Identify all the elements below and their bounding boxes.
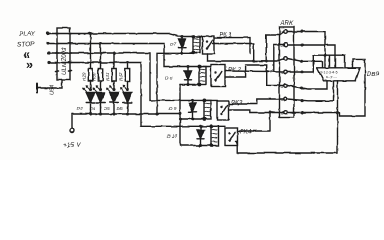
svg-text:D3: D3 [77, 106, 83, 112]
wire ULN common to ground [37, 80, 62, 88]
wire PLAY input bus [48, 34, 203, 37]
svg-text:9·1·2·3·4·5: 9·1·2·3·4·5 [321, 71, 338, 75]
LED D3 [77, 86, 95, 114]
wire PK2 to ARK pin5 [225, 65, 284, 86]
wire ARK pin5 to DB9 [287, 81, 327, 89]
wire ARK pin8 to DB9 [287, 81, 337, 113]
connector DB9 [317, 68, 379, 81]
relay contact PK3 [217, 101, 229, 120]
pin 3 [284, 57, 288, 61]
pin 4 [284, 70, 288, 74]
relay PK2 group [165, 65, 242, 87]
pin 5 [284, 84, 288, 88]
relay coil K1 [193, 37, 200, 53]
wire STOP input bus [48, 44, 211, 67]
svg-text:6··7····: 6··7···· [326, 76, 337, 80]
connector ARK terminal block [280, 21, 295, 118]
resistor R31 [105, 51, 116, 90]
relay PK3 group [169, 99, 243, 121]
relay coil K4 [211, 126, 219, 145]
wire PK4 bottom rail [180, 145, 211, 147]
node STOP label [17, 41, 35, 49]
svg-text:ARK: ARK [280, 21, 294, 27]
diode D9 [192, 100, 194, 103]
svg-text:DB9: DB9 [367, 72, 379, 78]
svg-text:U5A: U5A [50, 84, 56, 95]
svg-text:R30: R30 [92, 72, 97, 81]
wire PK1 common to ARK pin1 [214, 32, 284, 61]
wire PK2 to ARK pins2and4 [225, 45, 284, 72]
svg-text:D4: D4 [90, 106, 96, 112]
ground [36, 84, 38, 93]
wire PK4 to ARK pin8 [238, 113, 271, 132]
wire PK4 to DB9 long bottom run [236, 113, 338, 154]
svg-text:D7: D7 [170, 42, 176, 48]
svg-text:»: » [26, 58, 33, 72]
pin 1 [284, 30, 288, 34]
LED D5 [104, 86, 119, 114]
LED D4 [90, 86, 105, 114]
relay coil K3 [204, 100, 211, 119]
node +15V terminal [71, 114, 73, 129]
wire PK3 to ARK pin8 [229, 110, 285, 113]
resistor R32 [119, 61, 130, 90]
wire PK2 bottom rail [180, 84, 199, 86]
diode D10 [200, 126, 202, 130]
relay contact PK2 [211, 65, 225, 87]
svg-text:+15 V: +15 V [63, 142, 81, 149]
wire PK3 to ARK pin6 [229, 99, 285, 104]
relay PK4 group [167, 125, 252, 147]
node forward label [26, 58, 33, 72]
wire rewind input bus [49, 53, 217, 100]
diode D7 [181, 37, 183, 40]
svg-text:D 8: D 8 [165, 76, 173, 82]
wire PK1 bottom rail [182, 52, 197, 55]
wire +15V branch to lower relays [157, 113, 180, 115]
pin 6 [284, 97, 288, 101]
diode D8 [187, 67, 189, 72]
wire ARK pin6 to DB9 [287, 81, 333, 101]
wire ARK pin4 to DB9 [287, 55, 313, 72]
relay contact PK1 [203, 36, 215, 54]
svg-text:D 10: D 10 [167, 134, 177, 140]
wire +15V rail [72, 113, 157, 115]
resistor R29 [82, 32, 93, 90]
node rewind label [23, 48, 30, 62]
LED D6 [117, 86, 132, 114]
svg-text:ULN 2003: ULN 2003 [61, 47, 68, 75]
wire PK1 aux stub [214, 38, 250, 54]
pin 8 [284, 111, 288, 115]
node PLAY label [19, 30, 36, 38]
svg-text:R32: R32 [119, 72, 124, 81]
svg-text:D5: D5 [104, 106, 110, 112]
svg-text:R31: R31 [105, 72, 110, 81]
wire DB9 right-side loop [340, 59, 366, 116]
relay coil K2 [199, 67, 206, 85]
svg-text:D6: D6 [117, 106, 123, 112]
wire forward input bus [49, 63, 225, 127]
IC U5 ULN2003 [56, 28, 72, 80]
svg-text:PLAY: PLAY [19, 30, 36, 38]
wire +15V riser to relay rails [157, 53, 182, 114]
relay contact PK4 [225, 128, 238, 146]
wire ARK pin2 to DB9 [287, 45, 335, 68]
pin 2 [284, 43, 288, 47]
svg-text:D 9: D 9 [169, 106, 177, 112]
wire PK1 NO to ARK pin3 [208, 54, 285, 61]
wire ARK pin1 to DB9 [287, 32, 325, 68]
relay PK1 group [170, 33, 232, 55]
wire ARK pin3 to DB9 [287, 59, 322, 68]
IC designator U5A [50, 84, 56, 95]
wire DB9 top jumper [313, 55, 345, 68]
resistor R30 [92, 42, 103, 90]
wire PK3 bottom rail [180, 118, 204, 120]
svg-text:R29: R29 [82, 72, 87, 81]
